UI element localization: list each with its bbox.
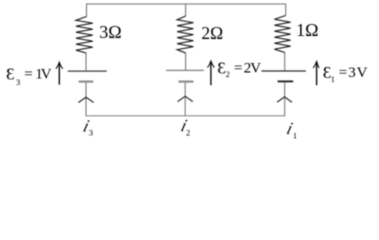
svg-text:=: = [339, 65, 347, 81]
svg-text:2: 2 [186, 127, 190, 137]
svg-text:1Ω: 1Ω [296, 20, 318, 40]
svg-text:V: V [357, 65, 368, 81]
svg-text:=: = [234, 61, 242, 77]
svg-text:Ɛ: Ɛ [6, 65, 15, 84]
svg-text:1: 1 [331, 74, 335, 84]
svg-text:2Ω: 2Ω [201, 23, 223, 43]
svg-text:2: 2 [226, 69, 230, 79]
svg-text:=: = [24, 67, 32, 83]
svg-text:V: V [41, 67, 52, 83]
svg-text:1: 1 [293, 131, 297, 141]
svg-text:V: V [250, 61, 261, 77]
svg-text:3: 3 [16, 77, 20, 87]
svg-text:3: 3 [348, 65, 356, 81]
svg-text:3Ω: 3Ω [99, 22, 121, 42]
svg-text:3: 3 [89, 128, 93, 138]
